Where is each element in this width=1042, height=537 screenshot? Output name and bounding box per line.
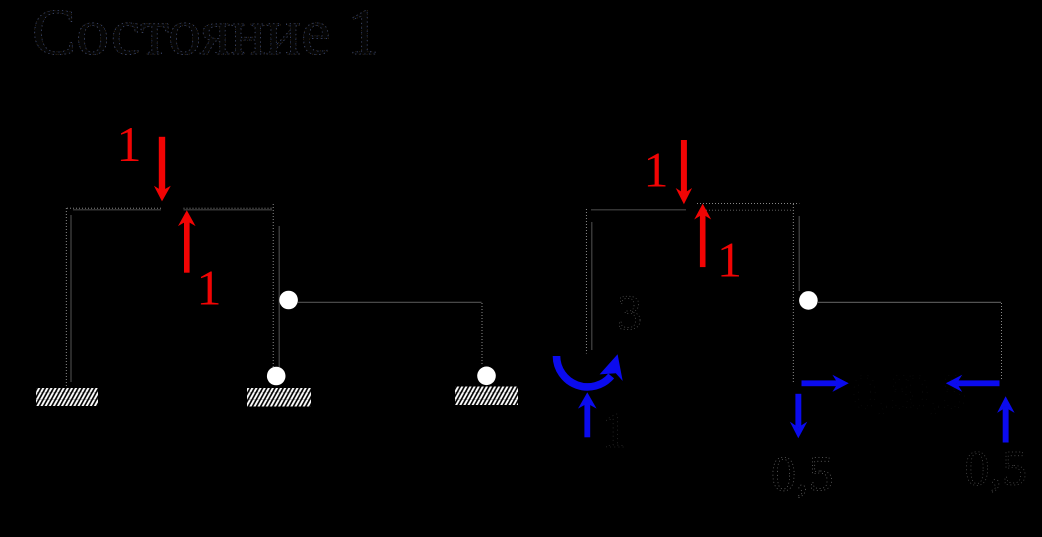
- svg-text:1: 1: [644, 142, 669, 198]
- right frame: top beam right part (dotted upper): [697, 203, 799, 205]
- right frame: middle column (dotted): [792, 204, 794, 382]
- right frame: right column (dotted): [1001, 303, 1003, 380]
- left frame: hinge circle at beam joint: [279, 291, 298, 310]
- right frame: blue moment arc: [557, 356, 612, 387]
- svg-text:0,5: 0,5: [965, 440, 1028, 496]
- left frame: middle column (dotted): [272, 204, 274, 368]
- svg-text:1: 1: [197, 260, 222, 316]
- left frame: top beam (solid): [73, 209, 161, 211]
- left frame: support hatch (middle): [247, 388, 311, 407]
- svg-text:1: 1: [602, 402, 627, 458]
- title "Состояние 1": [32, 0, 380, 69]
- left frame: red down force arrow: [154, 137, 171, 202]
- right frame: top beam (solid): [591, 209, 686, 211]
- svg-text:0,5: 0,5: [904, 363, 967, 419]
- right frame: blue moment arrowhead: [600, 354, 623, 381]
- right frame: blue right horizontal arrow: [802, 375, 849, 392]
- svg-text:Состояние 1: Состояние 1: [32, 0, 380, 69]
- left frame: left column (dotted): [65, 208, 67, 387]
- svg-text:1: 1: [717, 232, 742, 288]
- right frame: hinge circle at beam joint: [799, 291, 818, 310]
- svg-text:1: 1: [117, 116, 142, 172]
- right frame: blue up reaction arrow (left column base): [578, 392, 597, 437]
- right frame: middle column (solid): [798, 216, 800, 291]
- left frame: top beam (dotted): [67, 207, 161, 209]
- right frame: blue left horizontal arrow: [946, 375, 1000, 392]
- svg-text:0,5: 0,5: [771, 445, 834, 501]
- right frame: left column (dotted): [585, 209, 587, 354]
- right frame: lower beam (solid): [818, 301, 1001, 303]
- left frame: roller circle on right support: [477, 367, 496, 386]
- left frame: support hatch (right): [455, 387, 518, 406]
- left frame: roller circle on middle support: [267, 367, 286, 386]
- right frame: left column (solid): [591, 222, 593, 350]
- svg-text:3: 3: [617, 284, 642, 340]
- right frame: red up force arrow: [694, 204, 711, 268]
- left frame: left column (solid): [70, 215, 72, 382]
- right frame: blue up reaction arrow (right column base): [997, 396, 1015, 442]
- right frame: blue down reaction arrow (middle column base): [790, 394, 808, 438]
- left frame: right column (dotted): [481, 303, 483, 366]
- left frame: lower beam (solid): [298, 301, 482, 303]
- right frame: red down force arrow: [676, 140, 692, 204]
- left frame: fixed support hatch (left): [36, 388, 98, 406]
- left frame: red up force arrow: [178, 210, 196, 273]
- left frame: middle column (solid): [278, 226, 280, 367]
- right frame: top beam right part (dotted lower): [700, 209, 793, 211]
